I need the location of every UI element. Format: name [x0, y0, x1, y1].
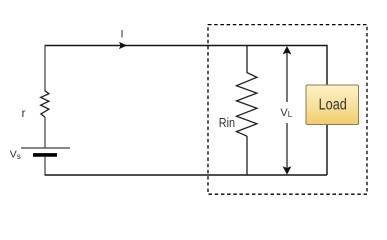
wire right branch upper: [326, 45, 328, 86]
wire top horizontal: [45, 45, 327, 47]
wire left upper: [44, 45, 46, 91]
svg-text:VL: VL: [280, 107, 292, 119]
label Vs: [10, 148, 21, 161]
label Load: [319, 96, 347, 113]
VL arrow line lower: [286, 123, 288, 170]
label Rin: [219, 116, 235, 130]
battery Vs short thick plate: [33, 153, 57, 157]
svg-text:Vs: Vs: [10, 148, 21, 161]
VL arrow line upper: [286, 50, 288, 102]
VL arrowhead top: [283, 46, 292, 54]
label r: [22, 106, 26, 120]
svg-text:I: I: [121, 29, 124, 41]
svg-text:Load: Load: [319, 96, 347, 113]
dashed enclosure box: [208, 25, 367, 195]
current arrow I: [119, 42, 127, 49]
resistor r: [41, 91, 49, 117]
wire left middle: [44, 117, 46, 148]
VL arrowhead bottom: [283, 166, 292, 174]
wire Rin branch upper: [246, 46, 248, 74]
load box: [306, 85, 359, 125]
battery Vs long plate: [21, 147, 70, 149]
label I: [121, 29, 124, 41]
wire left lower: [44, 157, 46, 176]
svg-text:Rin: Rin: [219, 116, 235, 130]
wire right branch lower: [326, 125, 328, 176]
wire bottom horizontal: [45, 174, 327, 176]
label VL: [280, 107, 292, 119]
svg-text:r: r: [22, 106, 26, 120]
wire Rin branch lower: [246, 136, 248, 175]
resistor Rin: [237, 73, 257, 137]
